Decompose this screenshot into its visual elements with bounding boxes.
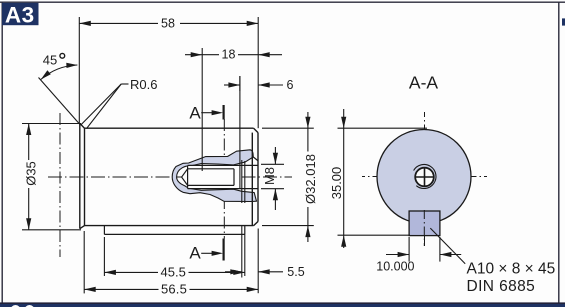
- shaft outline: [80, 123, 258, 228]
- svg-text:45: 45: [43, 52, 57, 67]
- section line A-A (dash-dot): [223, 119, 225, 239]
- svg-text:35.00: 35.00: [329, 167, 344, 200]
- vertical centerline of section: [424, 112, 426, 246]
- svg-text:A10 × 8 × 45: A10 × 8 × 45: [467, 261, 556, 278]
- center hole: [415, 168, 434, 187]
- A3 sheet badge: [2, 2, 39, 27]
- key leader + labels: [430, 228, 465, 264]
- chamfer edge line: [84, 128, 86, 225]
- right-edge badge sliver: [562, 18, 565, 25]
- svg-text:R0.6: R0.6: [130, 77, 157, 92]
- dimension 58: [79, 17, 258, 128]
- M8 tapped hole (white) with drill cone: [182, 165, 242, 188]
- hole crosshair: [415, 176, 435, 178]
- svg-text:Ø32.018: Ø32.018: [303, 154, 318, 204]
- svg-text:M8: M8: [262, 167, 277, 185]
- section marker A (top): [189, 103, 223, 122]
- dimension 18: [185, 48, 282, 171]
- keyway pocket (blue fill): [172, 150, 256, 202]
- section marker A (bottom): [189, 239, 223, 263]
- svg-text:18: 18: [222, 48, 236, 62]
- svg-text:10.000: 10.000: [376, 259, 414, 273]
- svg-text:A: A: [189, 103, 201, 122]
- axis dash-dot vertical line: [59, 113, 61, 257]
- dimension Ø35: [22, 124, 81, 230]
- right chamfer edge: [251, 133, 253, 226]
- svg-text:A-A: A-A: [409, 73, 439, 93]
- left face: [79, 123, 81, 228]
- bottom band glyph tops: [11, 305, 21, 307]
- dimension 35.00: [338, 109, 428, 248]
- centerline continuation through key: [423, 210, 425, 246]
- keyway footprint tray: [104, 226, 244, 235]
- dimension 5.5: [225, 271, 283, 273]
- M8 thread arc (3/4 circle): [414, 164, 436, 188]
- svg-text:45.5: 45.5: [161, 265, 186, 280]
- horizontal centerline of section: [362, 176, 487, 178]
- dimension 45.5: [104, 237, 244, 276]
- shaft section circle: [377, 130, 471, 224]
- svg-text:A3: A3: [5, 2, 35, 27]
- horizontal centerline: [48, 176, 292, 178]
- right chamfer diagonals: [254, 128, 258, 132]
- bottom navy band: [0, 304, 565, 307]
- bottom edge: [85, 225, 254, 227]
- feature verticals at hole/keyway ends: [240, 76, 245, 278]
- dimension 56.5: [84, 229, 258, 294]
- dimension 10.000: [386, 237, 461, 262]
- svg-text:6: 6: [287, 78, 294, 92]
- right face: [257, 133, 259, 222]
- svg-text:Ø35: Ø35: [24, 161, 39, 186]
- R0.6 leader: [81, 84, 129, 129]
- dimension M8: [261, 147, 284, 210]
- chamfer diagonals left: [80, 123, 85, 128]
- svg-text:A: A: [189, 243, 201, 262]
- svg-text:5.5: 5.5: [287, 265, 304, 279]
- 45 degree chamfer annotation: [39, 65, 80, 124]
- svg-text:58: 58: [161, 16, 175, 30]
- top edge: [85, 127, 254, 129]
- bottom rule: [0, 302, 565, 304]
- svg-text:56.5: 56.5: [161, 282, 187, 297]
- dimension 6: [224, 76, 283, 91]
- dimension Ø32.018: [262, 112, 314, 242]
- keyway square: [409, 211, 440, 236]
- svg-text:DIN 6885: DIN 6885: [467, 278, 536, 295]
